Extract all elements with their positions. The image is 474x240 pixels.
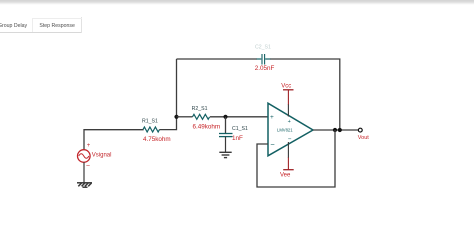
node B junction [223,115,227,119]
wire: R2 to op-amp noninverting input [210,116,268,118]
wire: Vsignal plus terminal up to R1 [84,130,143,150]
capacitor C1_S1 [219,126,248,142]
wire: top feedback rail left of C2 [177,58,258,60]
svg-text:−: − [270,140,275,149]
tab label Group Delay (clipped at left) [0,23,27,29]
svg-text:+: + [87,143,91,149]
toolbar top gradient bar [0,0,474,5]
node: output junction (feedback down) [333,128,337,132]
op-amp U1 LMV821 [268,103,313,156]
wire: Vsignal minus terminal to ground [83,162,85,182]
svg-text:Vsignal: Vsignal [92,153,112,159]
wire: node B down to C1 [225,117,227,134]
svg-text:−: − [288,136,292,143]
svg-text:+: + [270,114,274,121]
ground (earth) under Vsignal [77,183,92,187]
Vee supply symbol [280,142,294,179]
tab box left border [32,18,33,32]
capacitor C2_S1 in feedback [255,45,275,72]
ground under C1 [219,152,231,157]
resistor R1_S1 [142,119,171,143]
node A junction [174,115,178,119]
node: output junction (feedback up) [338,128,342,132]
wire: top feedback rail right of C2, down to output node [270,59,340,130]
svg-text:R1_S1: R1_S1 [142,119,158,125]
wire: node A to R2 [177,116,193,118]
svg-text:2.05nF: 2.05nF [255,65,275,72]
terminal Vout [358,128,369,141]
svg-text:C2_S1: C2_S1 [255,45,271,51]
svg-text:6.49kohm: 6.49kohm [193,123,221,130]
svg-text:−: − [86,163,90,170]
svg-text:Vout: Vout [358,135,369,141]
tab bar bottom border [0,32,81,33]
wire: op-amp output to Vout terminal [313,129,358,131]
wire: R1 to node A corner [160,117,177,130]
voltage source Vsignal [78,143,112,170]
svg-text:+: + [288,119,291,125]
tab bar right border [81,17,82,33]
svg-text:1nF: 1nF [232,135,243,142]
resistor R2_S1 [192,106,221,130]
wire: node A up to top feedback rail [176,59,178,117]
tab label Step Response [39,23,74,29]
Vcc supply symbol [281,84,293,117]
svg-text:LMV821: LMV821 [277,127,293,132]
svg-text:Vcc: Vcc [281,84,291,90]
svg-text:4.75kohm: 4.75kohm [143,136,171,143]
wire: feedback from output to inverting input [257,130,335,187]
wire: C1 to ground [225,137,227,153]
svg-text:R2_S1: R2_S1 [192,106,208,112]
tab box top border [32,18,82,19]
svg-text:C1_S1: C1_S1 [232,126,248,132]
svg-text:Vee: Vee [280,173,291,179]
